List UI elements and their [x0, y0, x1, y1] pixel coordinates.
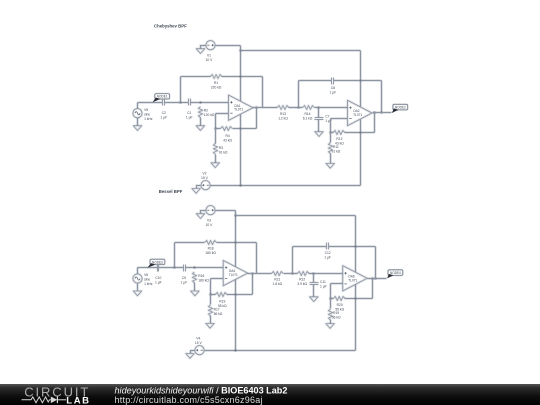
- svg-text:C1: C1: [187, 111, 191, 115]
- svg-text:LAB: LAB: [66, 395, 90, 405]
- svg-text:R19: R19: [219, 299, 225, 303]
- svg-text:Bessel BPF: Bessel BPF: [159, 189, 183, 194]
- svg-text:56 kΩ: 56 kΩ: [214, 312, 223, 316]
- svg-text:sine: sine: [144, 278, 150, 282]
- svg-text:R1: R1: [214, 81, 218, 85]
- svg-text:V3: V3: [207, 219, 211, 223]
- svg-text:R14: R14: [304, 112, 310, 116]
- svg-text:V4: V4: [196, 336, 200, 340]
- svg-text:R13: R13: [280, 112, 286, 116]
- svg-text:15 V: 15 V: [201, 176, 209, 180]
- svg-text:120 kΩ: 120 kΩ: [204, 113, 215, 117]
- svg-text:1.8 kΩ: 1.8 kΩ: [272, 282, 282, 286]
- svg-text:sine: sine: [144, 112, 150, 116]
- svg-text:1 µF: 1 µF: [186, 115, 193, 119]
- svg-text:3.9 kΩ: 3.9 kΩ: [297, 282, 307, 286]
- svg-text:180 kΩ: 180 kΩ: [205, 251, 216, 255]
- svg-text:1 µF: 1 µF: [155, 281, 162, 285]
- svg-text:V2: V2: [202, 171, 206, 175]
- svg-text:TL071: TL071: [353, 113, 362, 117]
- svg-text:R17: R17: [214, 308, 220, 312]
- svg-text:220 kΩ: 220 kΩ: [211, 86, 222, 90]
- svg-text:1 µF: 1 µF: [181, 281, 188, 285]
- svg-text:Chebyshev BPF: Chebyshev BPF: [154, 24, 187, 29]
- svg-text:10 V: 10 V: [206, 223, 214, 227]
- svg-text:TL071: TL071: [348, 278, 357, 282]
- svg-text:91 kΩ: 91 kΩ: [219, 151, 228, 155]
- svg-text:1 µF: 1 µF: [329, 90, 336, 94]
- svg-text:V5: V5: [144, 108, 148, 112]
- svg-text:C12: C12: [325, 251, 331, 255]
- svg-text:hideyourkidshideyourwifi / BIO: hideyourkidshideyourwifi / BIOE6403 Lab2: [115, 385, 288, 395]
- svg-text:http://circuitlab.com/c5s5cxn6: http://circuitlab.com/c5s5cxn6z96aj: [115, 395, 263, 405]
- svg-text:C9: C9: [182, 276, 186, 280]
- svg-text:R20: R20: [337, 303, 343, 307]
- svg-text:15 V: 15 V: [195, 341, 203, 345]
- svg-text:C2: C2: [162, 111, 166, 115]
- svg-text:NODE3: NODE3: [152, 260, 163, 264]
- svg-text:1 kHz: 1 kHz: [144, 282, 153, 286]
- svg-text:R19: R19: [333, 311, 339, 315]
- svg-text:R2: R2: [204, 109, 208, 113]
- svg-text:R21: R21: [274, 278, 280, 282]
- svg-text:R4: R4: [225, 134, 229, 138]
- svg-text:C7: C7: [325, 115, 329, 119]
- svg-text:R11: R11: [333, 145, 339, 149]
- svg-text:1.2 kΩ: 1.2 kΩ: [278, 117, 288, 121]
- svg-text:TL071: TL071: [229, 273, 238, 277]
- svg-text:TL071: TL071: [234, 108, 243, 112]
- svg-text:R16: R16: [198, 274, 204, 278]
- svg-text:NODE2: NODE2: [395, 106, 406, 110]
- svg-text:1 kHz: 1 kHz: [144, 117, 153, 121]
- svg-text:NODE1: NODE1: [157, 95, 168, 99]
- svg-text:1 µF: 1 µF: [324, 256, 331, 260]
- svg-text:C11: C11: [320, 280, 326, 284]
- svg-text:R3: R3: [219, 146, 223, 150]
- svg-text:C10: C10: [155, 276, 161, 280]
- svg-text:6.1 kΩ: 6.1 kΩ: [303, 117, 313, 121]
- svg-text:V1: V1: [207, 54, 211, 58]
- svg-text:R18: R18: [208, 247, 214, 251]
- svg-text:43 kΩ: 43 kΩ: [223, 138, 232, 142]
- svg-text:C8: C8: [331, 86, 335, 90]
- svg-text:R22: R22: [299, 278, 305, 282]
- svg-text:1 µF: 1 µF: [320, 285, 327, 289]
- svg-text:V6: V6: [144, 273, 148, 277]
- svg-text:180 kΩ: 180 kΩ: [198, 279, 209, 283]
- svg-text:R12: R12: [336, 137, 342, 141]
- svg-text:10 V: 10 V: [206, 58, 214, 62]
- svg-text:NODE4: NODE4: [390, 271, 401, 275]
- svg-text:1 µF: 1 µF: [160, 115, 167, 119]
